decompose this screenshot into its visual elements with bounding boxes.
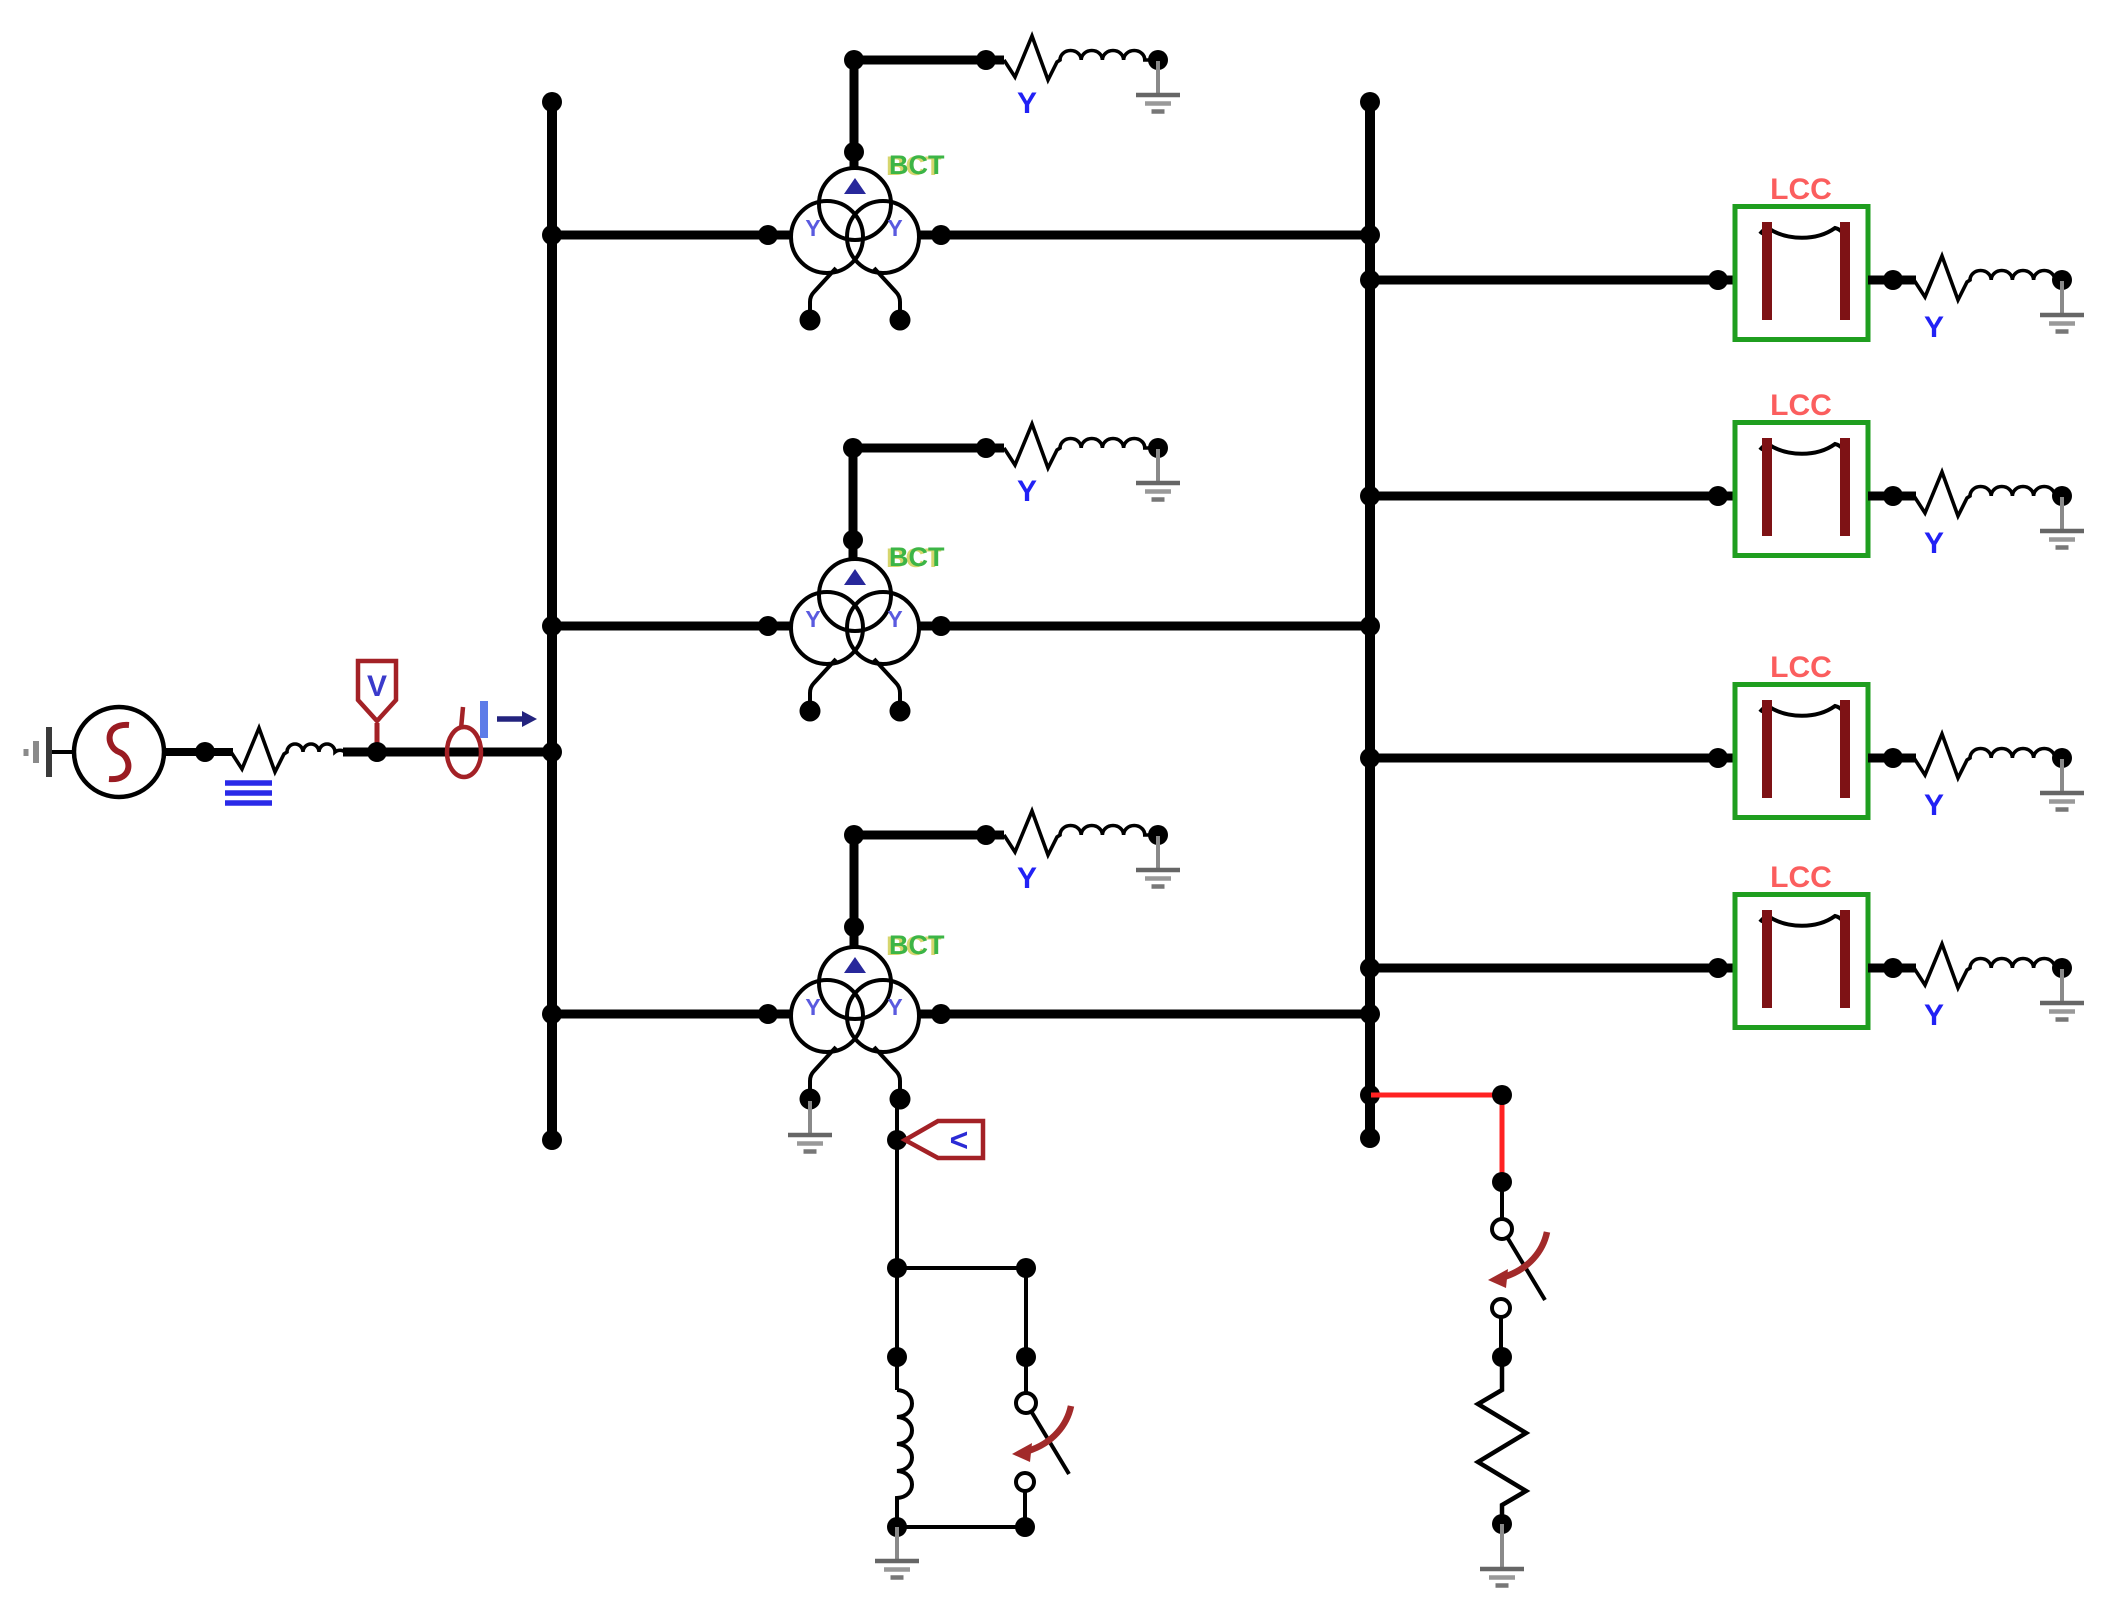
wire lcc2 from bus [1370,492,1737,501]
node row3 tleft [758,1004,778,1024]
label Y row1 [1017,87,1037,120]
resistor-inductor lcc4 [1914,944,2064,988]
label Y lcc3 [1924,789,1944,822]
node source out [195,742,215,762]
node lcc3 out [1883,748,1903,768]
node at V probe [367,742,387,762]
node bus left bottom [542,1130,562,1150]
LCC block 2 [1735,389,1868,556]
node row3 corner [844,825,864,845]
node row1 tleft [758,225,778,245]
node row2 corner [843,438,863,458]
label Y lcc1 [1924,311,1944,344]
node T left [887,1258,907,1278]
wire row1 left [552,231,792,240]
resistor-inductor row2 [1004,424,1154,468]
node bct3 leg2 [887,1130,907,1150]
probe branch voltage [905,1121,983,1158]
node above switch1 [1016,1347,1036,1367]
node red bottom [1492,1172,1512,1192]
node row3 rl start [976,825,996,845]
node lcc4 end [2052,958,2072,978]
label Y row2 [1017,475,1037,508]
ground bottom middle [875,1527,919,1578]
switch SW1 [1012,1393,1071,1491]
node row2 tleft [758,616,778,636]
node lcc3 in [1708,748,1728,768]
node lcc3 end [2052,748,2072,768]
node bus left source [542,742,562,762]
node lcc2 out [1883,486,1903,506]
LCC block 4 [1735,861,1868,1028]
node lcc1 in [1708,270,1728,290]
wire lcc1 out [1868,276,1916,285]
node row1 corner [844,50,864,70]
wire row2 right [918,622,1370,631]
node row1 tright [931,225,951,245]
node red corner [1492,1085,1512,1105]
wire bct3 right leg down [895,1099,899,1268]
node T right [1016,1258,1036,1278]
node row2 tright [931,616,951,636]
label Y lcc4 [1924,999,1944,1032]
wire bottom horizontal [897,1525,1026,1529]
node bottom left [887,1517,907,1537]
wire row3 right [918,1010,1370,1019]
wire red vertical [1500,1095,1505,1182]
node below resistor2 [1492,1514,1512,1534]
node lcc1 end [2052,270,2072,290]
bus left [547,101,557,1141]
inductor bottom [897,1390,912,1527]
node row3 tright [931,1004,951,1024]
node bottom right [1015,1517,1035,1537]
node bus right top [1360,92,1380,112]
node row2 rl start [976,438,996,458]
svg-text:BCT: BCT [889,930,945,960]
svg-text:BCT: BCT [889,542,945,572]
label BCT2 [886,542,945,573]
voltage probe V [358,661,396,748]
label Y row3 [1017,862,1037,895]
wire right branch down [1024,1268,1028,1393]
node bus right lcc2 [1360,486,1380,506]
wire row2 left [552,622,792,631]
ground row2 [1136,449,1180,500]
node bus left top [542,92,562,112]
wire red horizontal [1371,1093,1502,1098]
resistor-inductor source RL [231,728,345,772]
label BCT3 [886,930,945,961]
svg-text:BCT: BCT [889,150,945,180]
node row1 rl start [976,50,996,70]
svg-text:V: V [367,670,387,703]
node row3 vert [844,917,864,937]
wire lcc3 out [1868,754,1916,763]
resistor-inductor row3 [1004,811,1154,855]
transformer BCT2 [791,559,919,722]
node bus right lcc4 [1360,958,1380,978]
ground lcc2 [2040,497,2084,548]
node bus right row1 [1360,225,1380,245]
wire row1 right [918,231,1370,240]
node bus right lcc1 [1360,270,1380,290]
wire T horizontal [897,1266,1026,1270]
wire row1 elbow [854,60,1004,169]
ground row1 [1136,61,1180,112]
3-phase marker blue [225,783,272,803]
node row1 vert [844,142,864,162]
node lcc2 end [2052,486,2072,506]
node bus right lcc3 [1360,748,1380,768]
wire below switch1 [1023,1490,1027,1527]
node row2 vert [843,530,863,550]
node row3 rl end [1148,825,1168,845]
node bus right bottom [1360,1128,1380,1148]
wire lcc4 out [1868,964,1916,973]
node bus left row2 [542,616,562,636]
node lcc2 in [1708,486,1728,506]
current probe I [447,701,537,777]
switch SW2 [1488,1219,1547,1317]
ground bottom right [1480,1535,1524,1586]
wire lcc4 from bus [1370,964,1737,973]
ground row3 [1136,836,1180,887]
resistor-inductor lcc1 [1914,256,2064,300]
wire lcc3 from bus [1370,754,1737,763]
wire row3 left [552,1010,792,1019]
bus right [1365,101,1375,1139]
node lcc4 out [1883,958,1903,978]
wire to switch2 [1500,1182,1504,1219]
svg-text:<: < [950,1122,969,1158]
wire RL to bus left [343,748,552,757]
node lcc4 in [1708,958,1728,978]
ground lcc3 [2040,759,2084,810]
LCC block 1 [1735,173,1868,340]
node bus right row3 [1360,1004,1380,1024]
LCC block 3 [1735,651,1868,818]
ground lcc1 [2040,281,2084,332]
node bus right row2 [1360,616,1380,636]
resistor-inductor lcc2 [1914,472,2064,516]
resistor bottom right [1478,1357,1526,1524]
node above resistor2 [1492,1347,1512,1367]
wire lcc2 out [1868,492,1916,501]
wire source to RL [164,748,233,756]
ground bct3 left leg [788,1101,832,1152]
node bus left row1 [542,225,562,245]
wire row2 elbow [853,448,1004,560]
node lcc1 out [1883,270,1903,290]
resistor-inductor row1 [1004,36,1154,80]
ground lcc4 [2040,969,2084,1020]
node above inductor [887,1347,907,1367]
wire left branch down [895,1268,899,1390]
ac source [74,707,164,797]
wire to ground2 [1500,1524,1504,1566]
node row2 rl end [1148,438,1168,458]
node bus right red [1360,1085,1380,1105]
transformer BCT3 [791,947,919,1110]
wire below switch2 [1499,1317,1503,1357]
label Y lcc2 [1924,527,1944,560]
wire row3 elbow [854,835,1004,948]
transformer BCT1 [791,168,919,331]
label BCT1 [886,150,945,181]
wire lcc1 from bus [1370,276,1737,285]
node row1 rl end [1148,50,1168,70]
ground source left [26,727,76,777]
node bus left row3 [542,1004,562,1024]
resistor-inductor lcc3 [1914,734,2064,778]
